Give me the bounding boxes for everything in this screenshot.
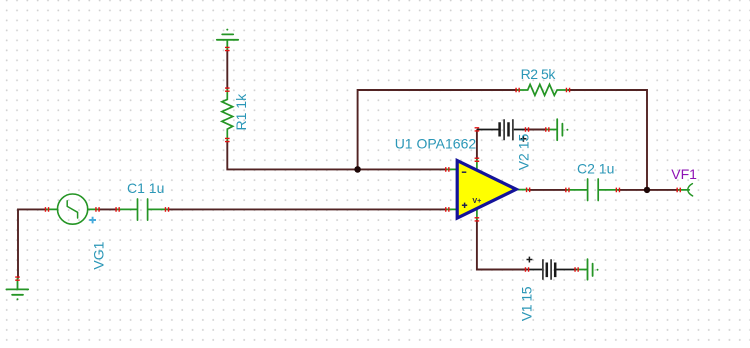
svg-text:V+: V+ bbox=[472, 196, 481, 205]
svg-text:VG1: VG1 bbox=[91, 241, 107, 269]
svg-text:VF1: VF1 bbox=[671, 166, 697, 182]
svg-text:R2 5k: R2 5k bbox=[521, 66, 557, 82]
svg-text:V1 15: V1 15 bbox=[518, 286, 534, 321]
svg-text:R1 1k: R1 1k bbox=[233, 93, 249, 131]
svg-text:V2 15: V2 15 bbox=[515, 134, 531, 171]
svg-text:C1 1u: C1 1u bbox=[127, 180, 164, 196]
svg-text:U1 OPA1662: U1 OPA1662 bbox=[395, 135, 477, 151]
svg-text:C2 1u: C2 1u bbox=[577, 161, 614, 177]
